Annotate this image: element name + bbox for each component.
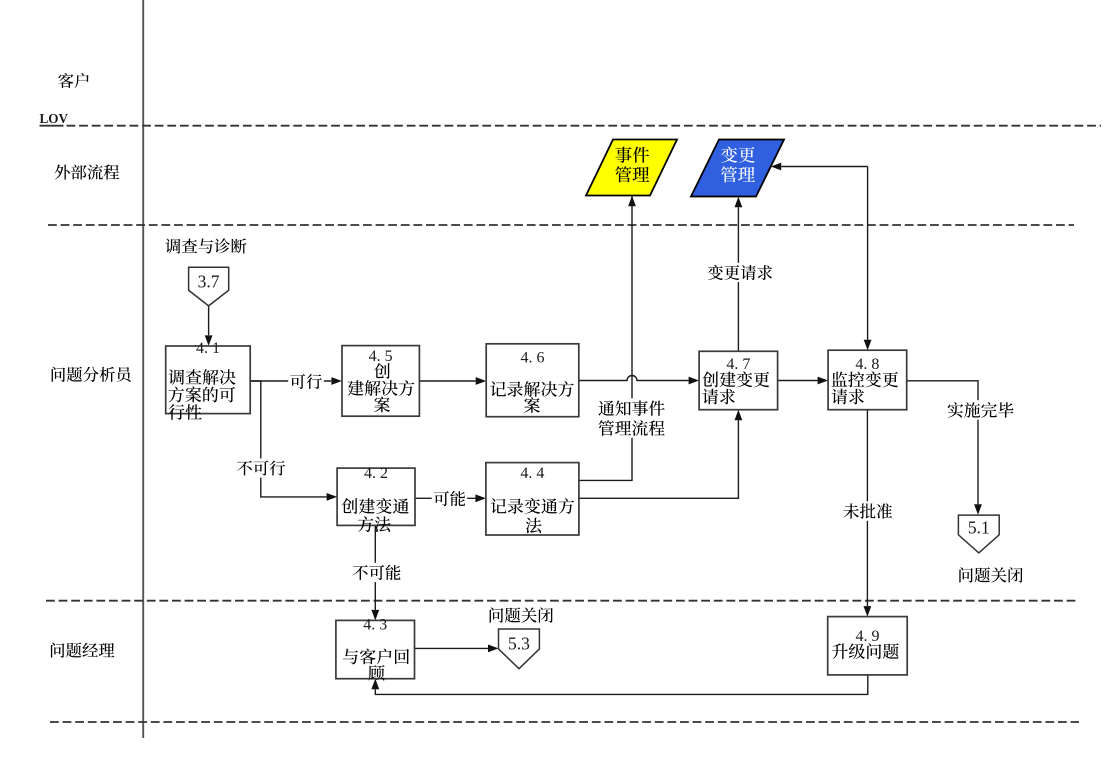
parallelogram: incident management (yellow) (586, 140, 677, 196)
pentagon connector 5.3 (499, 629, 540, 669)
lane label: problem analyst (52, 367, 131, 382)
arrow 4.6 to 4.7 with line hop (579, 376, 689, 381)
svg-text:4. 6: 4. 6 (521, 349, 545, 366)
lane label: customer (58, 73, 89, 88)
lane divider dashed 2 (48, 224, 1074, 226)
lane label: external process (55, 164, 120, 179)
arrow 3.7 to box 4.1 (208, 306, 210, 335)
LOV underline (40, 125, 64, 127)
svg-text:3.7: 3.7 (198, 272, 220, 292)
label: problem closed (right) (959, 567, 1022, 582)
lane label: problem manager (51, 643, 115, 658)
process box 4.4 record workaround (486, 463, 579, 535)
svg-text:5.3: 5.3 (508, 634, 530, 654)
label: not possible (351, 563, 403, 582)
label: problem closed (bottom) (490, 607, 553, 622)
label: not feasible (235, 459, 287, 478)
arrow 4.1 to 4.2 (label not feasible) (250, 381, 326, 497)
arrow 4.8 to pentagon 5.1 (label implementation complete) (907, 381, 978, 505)
svg-text:4. 5: 4. 5 (369, 348, 393, 365)
arrow 4.8 to 4.9 (label not approved) (866, 410, 868, 606)
svg-text:4. 7: 4. 7 (726, 356, 750, 373)
arrow 4.4 to incident management parallelogram (579, 196, 632, 480)
svg-text:5.1: 5.1 (968, 518, 990, 538)
pentagon connector 3.7 (189, 267, 229, 306)
label: notify incident mgmt line1 (597, 398, 667, 418)
label: change request (706, 263, 774, 282)
label: notify incident mgmt line2 (597, 418, 667, 438)
process box 4.2 create workaround (337, 468, 415, 525)
arrow 4.2 to 4.4 (label possible) (415, 497, 475, 499)
svg-text:4. 2: 4. 2 (364, 465, 388, 482)
svg-text:4. 3: 4. 3 (363, 617, 387, 634)
svg-text:4. 8: 4. 8 (855, 356, 879, 373)
svg-text:4. 1: 4. 1 (196, 340, 220, 357)
label: investigate and diagnose (165, 238, 246, 253)
process box 4.1 investigate solution feasibility (166, 346, 251, 414)
arrow change management route down into 4.8 top (867, 167, 869, 340)
svg-text:LOV: LOV (40, 111, 69, 126)
lane divider dashed 3 (46, 600, 1079, 602)
arrow 4.1 to 4.5 (label feasible) (250, 380, 331, 382)
swimlane vertical divider (142, 0, 144, 738)
arrow 4.2 to 4.3 (label not possible) (374, 525, 376, 610)
parallelogram: change management (blue) (691, 140, 784, 197)
process box 4.7 create change request (699, 351, 778, 409)
arrow 4.8 top route to change management (left pointing) (781, 166, 867, 168)
label: not approved (841, 501, 894, 521)
lane divider dashed 1 (67, 125, 1102, 127)
label: implementation complete (946, 400, 1016, 420)
label: possible (432, 489, 467, 508)
arrow 4.7 to change management parallelogram (label change request) (737, 207, 739, 351)
process box 4.9 escalate problem (828, 617, 908, 675)
process box 4.3 review with customer (336, 620, 415, 678)
arrow 4.5 to 4.6 (419, 380, 475, 382)
label: feasible (288, 372, 324, 391)
lane divider dashed 4 (50, 721, 1079, 723)
svg-text:4. 9: 4. 9 (856, 628, 880, 645)
process box 4.8 monitor change request (828, 350, 907, 410)
arrow 4.7 to 4.8 (778, 380, 818, 382)
svg-text:4. 4: 4. 4 (520, 465, 544, 482)
arrow 4.9 back to 4.3 (375, 675, 868, 695)
process box 4.5 create solution (342, 346, 419, 417)
pentagon connector 5.1 (958, 515, 999, 553)
arrow 4.3 to pentagon 5.3 (415, 647, 489, 649)
process box 4.6 record solution (486, 344, 579, 417)
arrow 4.4 to 4.7 bottom (579, 420, 739, 498)
